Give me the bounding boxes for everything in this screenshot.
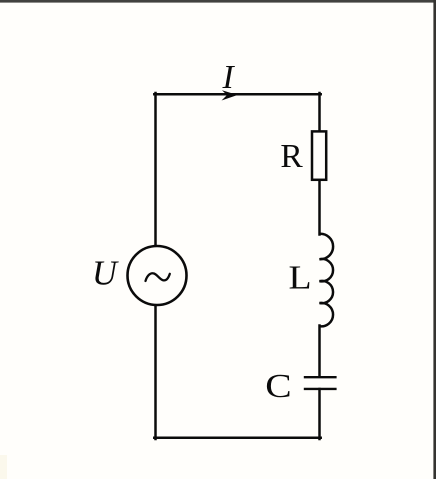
inductor L coil (320, 234, 334, 327)
wire top (154, 93, 320, 96)
wire bottom (154, 437, 320, 440)
wire left lower (154, 306, 157, 439)
sine symbol inside source (146, 273, 170, 281)
svg-text:L: L (289, 260, 312, 297)
svg-text:I: I (222, 59, 236, 96)
wire right between R and L (318, 181, 321, 235)
wire right upper (318, 93, 321, 131)
svg-text:C: C (265, 368, 291, 405)
wire right between L and C (318, 326, 321, 377)
wire left upper (154, 93, 157, 247)
AC voltage source circle (128, 246, 187, 305)
capacitor C bottom plate (304, 388, 337, 390)
wire right lower (318, 389, 321, 439)
resistor R box (312, 131, 326, 179)
svg-text:U: U (92, 254, 119, 292)
capacitor C top plate (304, 376, 337, 378)
svg-text:R: R (280, 138, 303, 175)
current arrowhead (222, 90, 238, 100)
